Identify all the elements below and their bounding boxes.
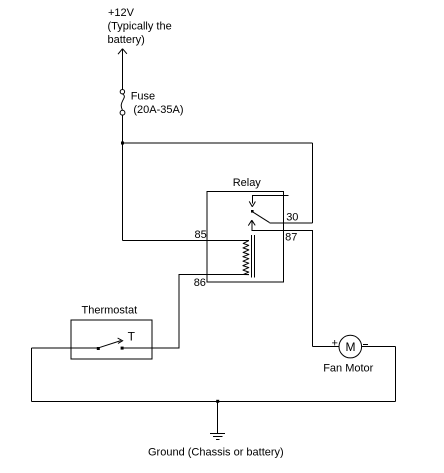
wire: relay 87 down to fan motor xyxy=(312,231,314,347)
svg-text:+: + xyxy=(332,338,338,350)
fuse F1 top terminal circle xyxy=(120,90,124,94)
wire: into fan motor + terminal xyxy=(313,346,340,348)
arrowhead pointing up at pin 87 contact xyxy=(248,220,255,225)
svg-text:(20A-35A): (20A-35A) xyxy=(133,104,183,116)
wire: ground bus along bottom xyxy=(31,400,395,402)
junction dot at fuse/relay-30 branch xyxy=(121,142,124,145)
svg-text:T: T xyxy=(128,330,136,344)
svg-text:(Typically the: (Typically the xyxy=(108,21,172,33)
wire: pin 85 horizontal into relay coil xyxy=(123,240,250,242)
svg-text:battery): battery) xyxy=(108,34,145,46)
ground symbol bars xyxy=(210,433,225,439)
wire: left feed into thermostat switch xyxy=(31,347,97,349)
svg-text:Fuse: Fuse xyxy=(131,91,155,103)
svg-text:+12V: +12V xyxy=(108,7,135,19)
wire: right side down to relay pin 30 xyxy=(312,143,314,223)
svg-text:M: M xyxy=(346,340,356,354)
wire: thermostat left down to ground bus xyxy=(30,348,32,401)
fuse F1 element S-curve xyxy=(121,94,124,110)
wire: fuse down to pin 85 feed xyxy=(122,115,124,240)
thermostat box outline xyxy=(71,320,152,359)
svg-text:Thermostat: Thermostat xyxy=(82,305,138,317)
svg-text:Ground (Chassis or battery): Ground (Chassis or battery) xyxy=(148,447,284,459)
fan motor M1 circle xyxy=(339,335,362,358)
arrowhead pointing down at relay common xyxy=(249,201,255,206)
svg-text:Relay: Relay xyxy=(233,177,262,189)
wire: top branch to the right xyxy=(123,142,313,144)
arrowhead on thermostat switch arm xyxy=(118,338,123,343)
arrowhead pointing up at +12V xyxy=(118,49,127,55)
wire: fan motor - terminal to right xyxy=(362,346,396,348)
fan motor - polarity mark xyxy=(363,344,368,346)
relay box outline xyxy=(207,191,283,282)
junction dot at ground tap xyxy=(216,400,219,403)
wire: relay common contact feed xyxy=(252,196,288,204)
wire: pin 30 out to right xyxy=(270,222,313,224)
relay movable contact diagonal to pin 30 xyxy=(253,212,269,222)
relay core double bars xyxy=(252,235,255,278)
wire: +12V arrow stem down to fuse xyxy=(122,50,124,90)
thermostat left contact dot xyxy=(97,347,100,350)
svg-text:86: 86 xyxy=(194,277,206,289)
svg-text:87: 87 xyxy=(285,232,297,244)
fuse F1 bottom terminal circle xyxy=(120,110,125,115)
relay coil scribble xyxy=(243,241,249,275)
thermostat right contact dot xyxy=(121,347,124,350)
svg-text:85: 85 xyxy=(195,229,207,241)
wire: fan motor return down right side xyxy=(395,347,397,402)
svg-text:30: 30 xyxy=(286,212,298,224)
wire: pin 86 to thermostat xyxy=(123,275,249,348)
thermostat switch arm diagonal xyxy=(99,341,121,348)
relay pivot dot xyxy=(251,210,254,213)
svg-text:Fan Motor: Fan Motor xyxy=(323,363,373,375)
wire: ground stem xyxy=(217,401,219,433)
wire: pin 87 contact stem and out to right xyxy=(252,221,313,231)
